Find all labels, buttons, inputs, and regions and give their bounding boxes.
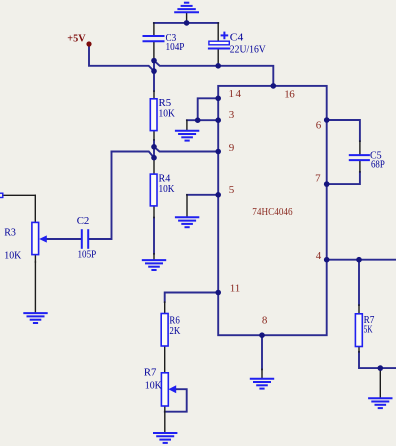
svg-text:68P: 68P: [371, 159, 385, 171]
svg-text:10K: 10K: [145, 380, 162, 392]
svg-text:10K: 10K: [4, 250, 21, 262]
svg-text:10K: 10K: [159, 183, 175, 195]
svg-text:14: 14: [229, 88, 242, 100]
svg-text:2K: 2K: [169, 325, 180, 337]
svg-text:R7: R7: [144, 367, 157, 379]
svg-text:11: 11: [230, 283, 241, 295]
svg-text:8: 8: [262, 314, 268, 326]
svg-text:104P: 104P: [166, 41, 185, 53]
svg-text:5K: 5K: [364, 324, 373, 336]
svg-text:R3: R3: [4, 226, 16, 238]
svg-text:74HC4046: 74HC4046: [252, 206, 293, 218]
svg-text:6: 6: [316, 119, 322, 131]
svg-text:4: 4: [316, 250, 322, 262]
svg-text:+5V: +5V: [67, 33, 85, 45]
svg-text:C4: C4: [230, 32, 244, 44]
svg-text:3: 3: [229, 109, 235, 121]
svg-text:105P: 105P: [78, 249, 97, 261]
svg-text:C2: C2: [77, 215, 90, 227]
svg-text:5: 5: [229, 184, 235, 196]
svg-text:9: 9: [229, 142, 235, 154]
svg-text:10K: 10K: [159, 107, 175, 119]
svg-text:16: 16: [284, 89, 295, 101]
svg-text:7: 7: [315, 173, 321, 185]
svg-text:22U/16V: 22U/16V: [230, 44, 266, 56]
